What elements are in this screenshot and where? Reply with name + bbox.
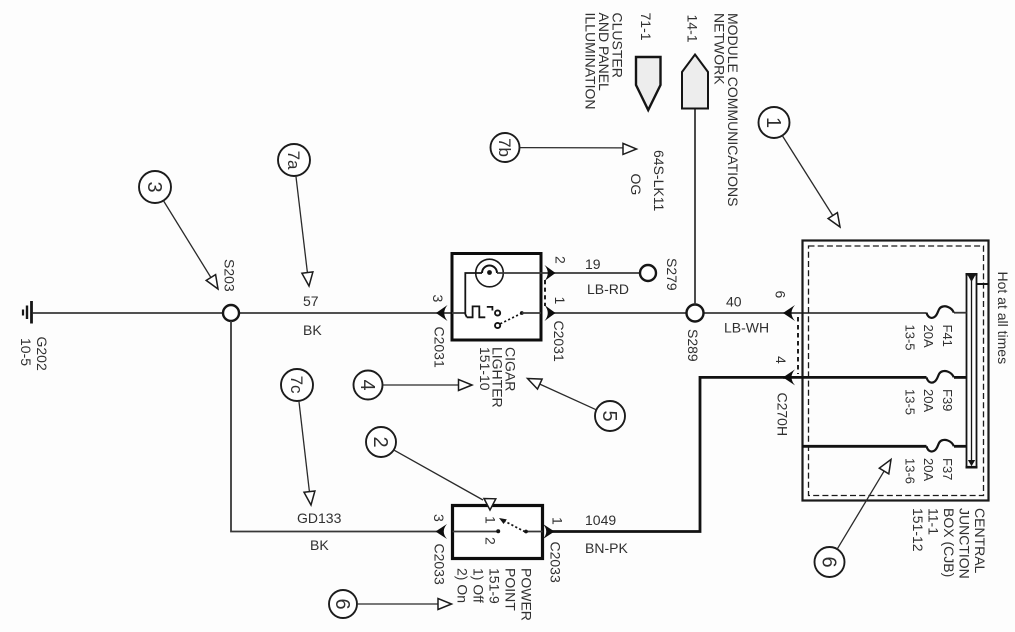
switch blade [503,520,525,532]
callout 6 (CJB) [815,460,892,578]
cigar lighter box [452,254,541,341]
pin 3 arrow (left) [436,524,448,539]
svg-text:13-5: 13-5 [903,325,918,351]
wire pin 3 into cigar lighter [452,312,466,314]
label F37 20A 13-6 [903,458,956,484]
svg-text:4: 4 [356,380,378,391]
svg-text:5: 5 [598,411,620,422]
svg-text:57: 57 [303,293,319,309]
svg-text:1: 1 [552,297,568,305]
callout 7c [281,369,315,505]
svg-text:20A: 20A [921,458,936,481]
svg-text:3: 3 [431,514,447,522]
label G202 10-5 [18,337,50,371]
svg-text:20A: 20A [921,389,936,412]
svg-text:20A: 20A [921,325,936,348]
callout 5 [528,379,626,432]
svg-text:F37: F37 [940,458,955,480]
wire ground to S203 (57 BK) [33,312,224,314]
svg-text:S279: S279 [664,258,680,291]
heating coil (square wave) [467,306,486,317]
callout 1 [759,107,841,227]
blade end dot [520,311,524,315]
off-page connector: module communications network (points up) [682,55,708,109]
svg-text:151-9: 151-9 [487,568,503,604]
pin 4 arrow [783,369,795,385]
splice S279 [640,265,656,281]
callout 6 (power point) [329,590,452,618]
fuse F41 wire [954,312,967,314]
wire S203 down to GD133 run [231,321,438,532]
svg-text:S289: S289 [685,329,701,362]
svg-text:4: 4 [773,356,789,364]
fuse F37 [927,440,954,452]
wire through power point [453,531,498,533]
wire 19 LB-RD: cigar pin 2 to S279 [552,272,640,274]
svg-text:ILLUMINATION: ILLUMINATION [583,13,599,110]
wire pin 4 to fuse F39 [783,376,927,379]
svg-text:S203: S203 [222,259,238,292]
pin 1 arrow (right) [545,305,556,321]
off-page connector: cluster and panel illumination (points down) [636,57,661,110]
svg-text:2) On: 2) On [455,568,471,603]
pin 6 arrow [783,305,795,321]
cigar lighter element (circle with coil terminal) [476,259,552,287]
callout 7b [491,133,637,162]
svg-text:GD133: GD133 [297,510,342,526]
switch blade arrowhead [499,518,507,524]
central junction box inner dashed [809,246,984,496]
wire module-communications pentagon down to S289 [694,109,696,305]
svg-text:6: 6 [773,291,789,299]
power point box [453,506,543,559]
wire 40 LB-WH: cigar pin1 to S289 to CJB pin 6 [552,312,687,314]
svg-text:6: 6 [817,557,839,568]
contact bracket [487,307,493,311]
svg-text:3: 3 [430,295,446,303]
svg-text:BOX (CJB): BOX (CJB) [941,508,957,577]
svg-text:POINT: POINT [503,568,519,611]
svg-text:C2033: C2033 [548,542,564,583]
connector C2031 dashed line (right) [544,280,546,306]
fuse F39 wire (thick) [954,376,967,379]
svg-text:1) Off: 1) Off [471,568,487,603]
svg-text:C270H: C270H [775,393,791,437]
svg-text:151-12: 151-12 [910,508,926,552]
central junction box outer [803,241,989,501]
svg-text:OG: OG [628,174,644,196]
callout 4 [354,371,473,400]
svg-text:LB-RD: LB-RD [587,281,629,297]
bus bar (hot at all times) [966,274,978,468]
svg-text:2: 2 [369,437,391,448]
wire pin1 into box [522,312,541,314]
fuse F41 [927,306,954,318]
svg-text:2: 2 [553,256,569,264]
svg-text:CENTRAL: CENTRAL [972,508,988,574]
svg-text:7a: 7a [284,151,303,170]
svg-text:F39: F39 [940,389,955,411]
pivot contact circle [495,323,500,328]
label F41 20A 13-5 [903,325,956,351]
pin 3 arrow (left) [436,305,448,321]
wire 1049 BN-PK: power point pin 1 to CJB pin 4 (thick) [552,377,786,531]
svg-text:40: 40 [726,294,742,310]
svg-text:13-5: 13-5 [903,389,918,415]
pin 1 arrow (right) [543,524,555,539]
svg-text:JUNCTION: JUNCTION [957,508,973,579]
svg-text:19: 19 [585,256,601,272]
svg-text:151-10: 151-10 [477,347,493,391]
node S289 [687,305,704,322]
switch pivot dot [524,530,528,534]
svg-text:7b: 7b [495,138,514,157]
svg-text:BK: BK [303,322,322,338]
svg-text:2: 2 [483,537,499,545]
callout 7a [278,144,313,286]
svg-text:1: 1 [762,117,784,128]
svg-text:71-1: 71-1 [638,13,654,41]
svg-text:1049: 1049 [585,512,616,528]
svg-text:C2033: C2033 [432,544,448,585]
fuse F37 wire (thick) [803,445,927,448]
wire S203 to cigar lighter pin 3 [239,312,452,314]
wire element to coil [465,273,482,317]
bimetal switch blade (dotted) [500,314,520,324]
ground G202 [23,301,32,324]
svg-text:13-6: 13-6 [903,458,918,484]
svg-text:14-1: 14-1 [685,15,701,43]
callout 2 [366,427,496,510]
svg-text:C2031: C2031 [551,321,567,362]
svg-text:NETWORK: NETWORK [712,13,728,85]
pin 2 arrow [545,265,556,281]
svg-text:64S-LK11: 64S-LK11 [651,150,667,211]
svg-text:1: 1 [550,517,566,525]
connector C270H dashed line [797,317,799,374]
node S203 [223,305,239,321]
switch contact dot (position 2) [496,529,500,533]
callout 3 [139,171,218,289]
svg-text:7c: 7c [287,376,306,394]
label POWER POINT 151-9 1) Off 2) On [455,568,535,621]
svg-text:POWER: POWER [519,568,535,621]
svg-text:10-5: 10-5 [18,338,34,366]
bus feed stub [977,283,989,285]
svg-text:BN-PK: BN-PK [585,540,628,556]
fixed contact circle [495,310,500,315]
label MODULE COMMUNICATIONS NETWORK [712,13,741,206]
svg-text:BK: BK [310,537,329,553]
label CENTRAL JUNCTION BOX (CJB) 11-1 151-12 [910,508,988,579]
svg-text:LB-WH: LB-WH [724,320,769,336]
label 64S-LK11 OG [628,150,667,211]
svg-text:Hot at all times: Hot at all times [995,272,1011,365]
fuse F39 [927,371,954,383]
label F39 20A 13-5 [903,389,956,415]
svg-text:3: 3 [143,182,165,193]
svg-text:6: 6 [331,599,353,610]
label CLUSTER AND PANEL ILLUMINATION [583,13,626,110]
svg-text:G202: G202 [34,337,50,371]
svg-text:F41: F41 [940,325,955,347]
svg-text:11-1: 11-1 [926,508,942,535]
svg-text:C2031: C2031 [432,327,448,368]
svg-text:1: 1 [483,516,499,524]
label CIGAR LIGHTER 151-10 [477,347,519,408]
